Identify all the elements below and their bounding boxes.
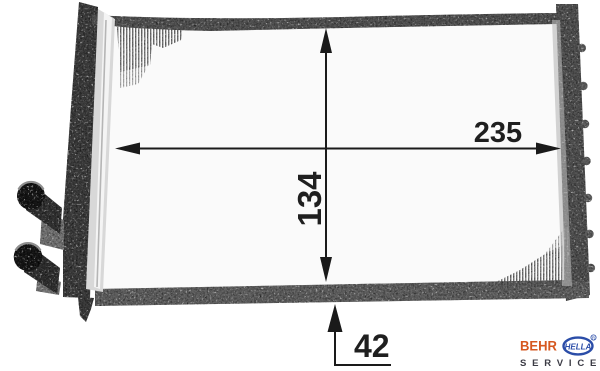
side plate highlight (86, 9, 115, 292)
right tank (556, 4, 590, 301)
pipe flange plate lower (36, 274, 61, 295)
right tank tab 1 (578, 44, 586, 52)
svg-text:235: 235 (474, 117, 522, 149)
left mounting foot (78, 297, 94, 322)
right tank tab 5 (584, 194, 592, 202)
lower pipe rim highlight (16, 243, 41, 250)
upper pipe rim highlight (19, 182, 44, 190)
logo HELLA oval (564, 338, 593, 355)
svg-text:R: R (592, 335, 595, 340)
right tank tab 6 (585, 230, 593, 238)
leader line 42 vertical (334, 322, 336, 365)
bottom header band (95, 280, 589, 306)
side plate white sheen (94, 12, 112, 289)
svg-text:42: 42 (354, 328, 390, 364)
dimension line 134 (325, 42, 327, 270)
arrowhead 235 right (536, 143, 561, 155)
arrowhead 134 top (320, 28, 332, 53)
lower outlet pipe (24, 244, 60, 294)
left tank (63, 2, 98, 298)
fins texture top-left light (119, 46, 149, 88)
logo registered mark (591, 335, 596, 340)
pipe flange plate upper (40, 212, 64, 250)
svg-text:BEHR: BEHR (520, 339, 557, 354)
lower pipe opening (14, 243, 42, 271)
fins texture bottom-right (492, 242, 571, 287)
arrowhead 42 (328, 304, 343, 332)
top header band (92, 13, 557, 31)
arrowhead 235 left (115, 143, 140, 155)
upper inlet pipe (26, 182, 62, 234)
side plate inner seam line (97, 20, 106, 287)
upper pipe opening (17, 182, 45, 210)
leader line 42 horizontal (334, 364, 391, 366)
right tank tab 4 (582, 157, 590, 165)
fins texture bottom-right light (522, 226, 570, 282)
dimension line 235 (128, 148, 548, 150)
svg-text:HELLA: HELLA (565, 343, 592, 352)
svg-text:134: 134 (291, 171, 328, 227)
fins texture top-left (117, 25, 183, 72)
right inner plate shading (552, 20, 572, 286)
arrowhead 134 bottom (320, 257, 332, 282)
right tank tab 2 (579, 82, 587, 90)
core interior (96, 20, 575, 294)
right tank tab 7 (587, 264, 595, 272)
right tank tab 3 (581, 120, 589, 128)
svg-text:SERVICE: SERVICE (520, 358, 600, 369)
